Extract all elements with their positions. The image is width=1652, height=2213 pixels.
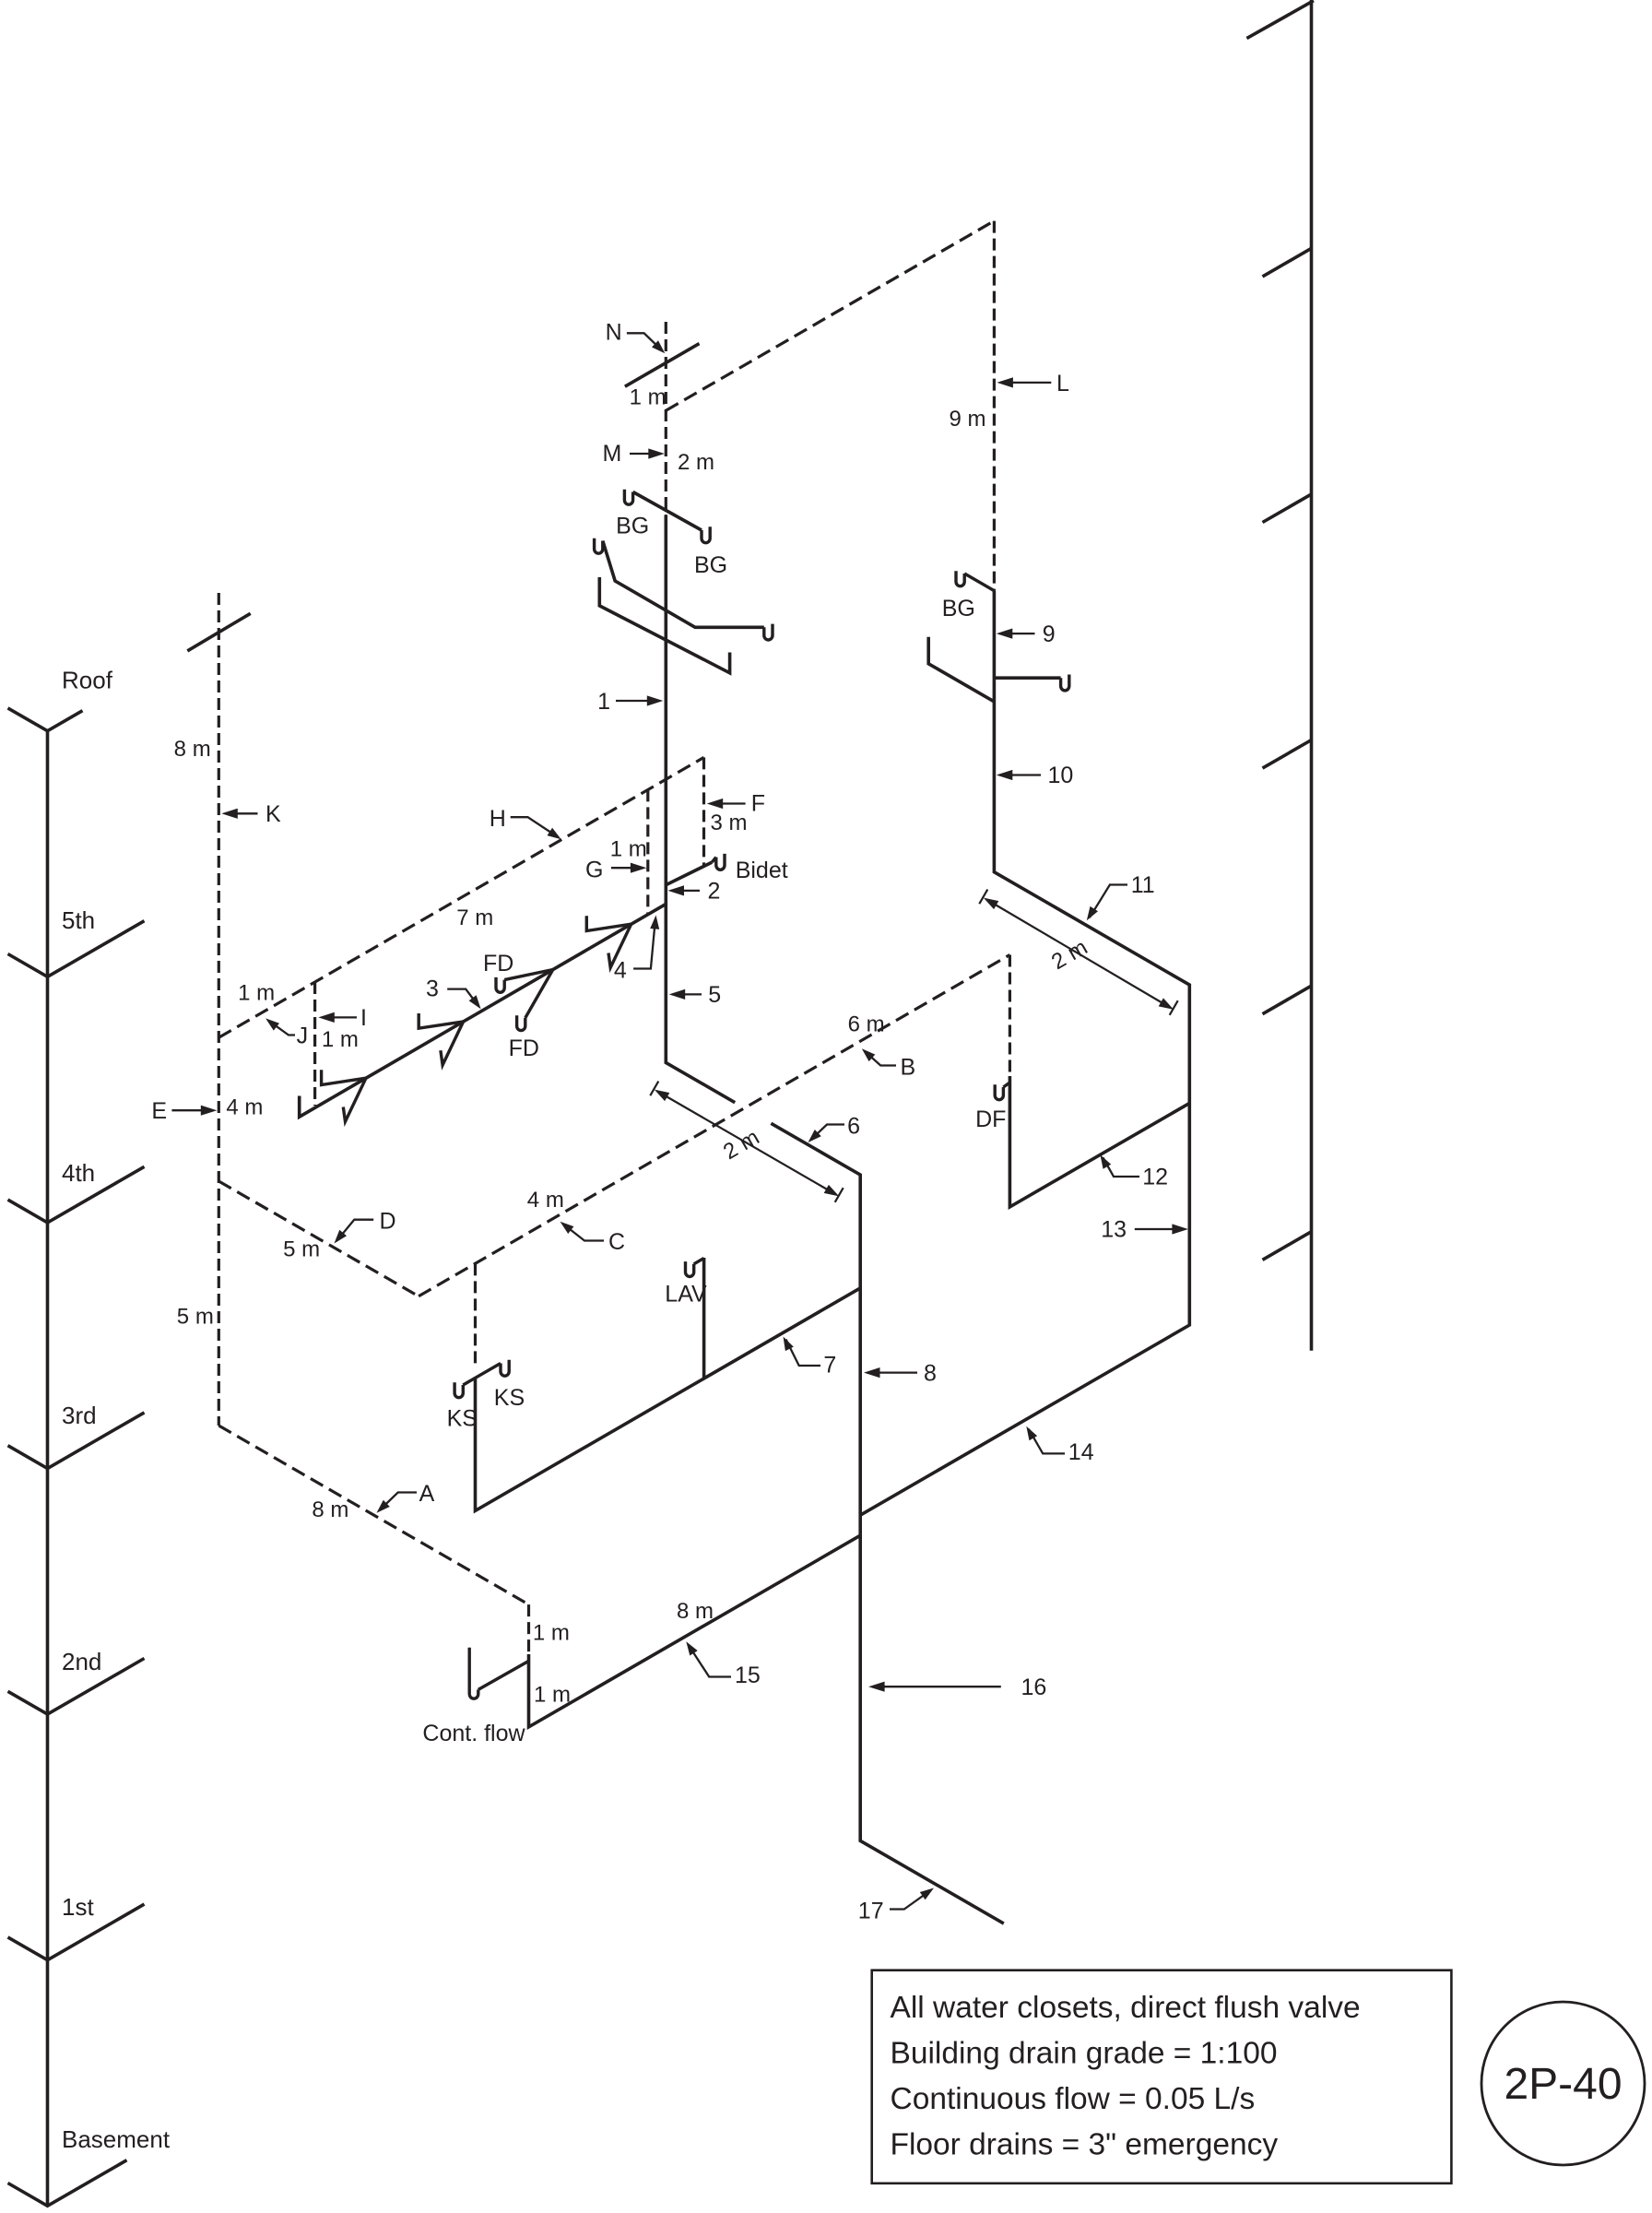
fixture trap lav-s2	[1061, 675, 1069, 691]
svg-text:7 m: 7 m	[456, 905, 493, 930]
WC W3 check	[608, 924, 631, 967]
floor tick and label 3rd	[8, 1413, 145, 1469]
vent A dashed diagonal	[218, 1426, 528, 1604]
svg-text:8 m: 8 m	[312, 1497, 348, 1522]
svg-text:E: E	[151, 1098, 167, 1124]
svg-text:12: 12	[1142, 1165, 1168, 1190]
floor scale vertical line	[46, 731, 50, 2207]
vent C-B dashed diagonal	[419, 955, 1009, 1296]
right stack vertical	[1310, 0, 1314, 1351]
pipe DF vertical	[1009, 1076, 1189, 1207]
right stack top tick	[1246, 1, 1314, 39]
vent diagonal stack1 to stack2 dashed	[666, 221, 994, 411]
WC W1 check	[343, 1078, 366, 1121]
right stack floor tick 1	[1263, 248, 1312, 277]
WC W1 bracket	[322, 1070, 366, 1084]
vent F dashed vertical	[702, 757, 705, 865]
stack 8 vertical	[771, 1123, 1003, 1923]
right stack floor tick 3	[1263, 740, 1312, 769]
svg-text:LAV: LAV	[665, 1282, 707, 1308]
WC W2 check	[441, 1022, 464, 1065]
fixture trap LAV	[694, 1259, 704, 1264]
label J leader	[269, 1021, 296, 1035]
svg-text:5 m: 5 m	[177, 1304, 214, 1329]
branch FD2 connector	[525, 970, 553, 1018]
arrow 5	[673, 993, 702, 995]
arrow I	[322, 1016, 357, 1018]
svg-text:D: D	[380, 1209, 396, 1235]
svg-text:1: 1	[597, 689, 610, 715]
svg-text:Continuous flow = 0.05 L/s: Continuous flow = 0.05 L/s	[891, 2082, 1256, 2116]
arrow 1	[616, 700, 659, 702]
svg-text:J: J	[297, 1024, 309, 1049]
fixture trap KS1	[454, 1382, 463, 1397]
vent DF dashed vertical	[1009, 955, 1011, 1073]
branch 3 main line	[300, 904, 667, 1117]
svg-text:1 m: 1 m	[610, 836, 647, 861]
fixture trap lav-s1	[764, 624, 773, 640]
arrow 13	[1135, 1228, 1174, 1230]
svg-text:B: B	[901, 1055, 916, 1081]
svg-text:8 m: 8 m	[677, 1599, 714, 1624]
right stack floor tick 4	[1263, 986, 1312, 1014]
svg-text:1st: 1st	[62, 1893, 94, 1921]
svg-text:1 m: 1 m	[322, 1027, 359, 1052]
dimension 2 m (jog 11) line	[987, 900, 1170, 1008]
svg-text:DF: DF	[975, 1106, 1006, 1132]
svg-text:BG: BG	[616, 513, 649, 538]
svg-text:15: 15	[735, 1663, 761, 1688]
svg-text:4 m: 4 m	[527, 1188, 564, 1213]
fixture cont flow trap	[469, 1648, 478, 1698]
svg-text:3rd: 3rd	[62, 1402, 97, 1429]
stack 1 solid	[666, 515, 735, 1103]
arrow E	[171, 1109, 204, 1111]
WC W2 bracket	[419, 1013, 463, 1028]
svg-text:Bidet: Bidet	[736, 858, 788, 883]
arrow M	[630, 453, 661, 455]
svg-text:6 m: 6 m	[848, 1012, 885, 1036]
arrow F	[711, 802, 746, 804]
drawing number circle	[1481, 2002, 1645, 2165]
vent D dashed diagonal	[218, 1181, 419, 1296]
svg-text:2: 2	[708, 879, 721, 905]
svg-text:6: 6	[847, 1114, 860, 1140]
svg-text:C: C	[608, 1229, 625, 1255]
pipe LAV vertical	[702, 1258, 706, 1379]
vent line H-J dashed diagonal	[218, 757, 703, 1037]
svg-text:3: 3	[426, 976, 439, 1002]
svg-text:FD: FD	[509, 1035, 539, 1061]
svg-text:I: I	[360, 1005, 367, 1031]
svg-text:N: N	[606, 320, 622, 346]
floor tick and label 1st	[8, 1904, 145, 1960]
stack 1 vent dashed	[665, 322, 667, 515]
fixture trap BG1 left	[624, 490, 632, 504]
svg-text:L: L	[1056, 371, 1069, 396]
fixture trap FD1	[496, 977, 504, 992]
arrow 16	[872, 1686, 1001, 1687]
arrow K	[225, 812, 258, 814]
floor tick and label 2nd	[8, 1659, 145, 1715]
svg-text:F: F	[751, 790, 765, 816]
svg-text:A: A	[419, 1481, 435, 1507]
arrow L	[1000, 382, 1051, 384]
svg-text:G: G	[585, 858, 603, 883]
pipe A drop solid	[529, 1535, 861, 1727]
svg-text:Roof: Roof	[62, 667, 113, 694]
svg-text:Building drain grade = 1:100: Building drain grade = 1:100	[891, 2037, 1278, 2071]
arrow G	[611, 867, 643, 869]
svg-text:8: 8	[924, 1360, 937, 1386]
fixture trap BG2	[595, 538, 603, 553]
WC W3 bracket	[586, 916, 631, 930]
right stack floor tick 5	[1263, 1232, 1312, 1260]
svg-text:5: 5	[708, 982, 721, 1008]
fixture trap FD2	[517, 1015, 525, 1030]
svg-text:H: H	[490, 806, 506, 832]
svg-text:4th: 4th	[62, 1159, 95, 1187]
vent I dashed vertical	[313, 982, 316, 1106]
vent stack K-E dashed	[218, 593, 220, 1426]
svg-text:17: 17	[858, 1899, 884, 1924]
floor tick and label 5th	[8, 921, 145, 977]
arrow 8	[867, 1371, 917, 1373]
svg-text:BG: BG	[942, 596, 975, 621]
svg-text:10: 10	[1048, 763, 1074, 788]
fixture trap bidet	[712, 858, 716, 863]
svg-text:9 m: 9 m	[949, 407, 985, 432]
svg-text:4: 4	[614, 957, 627, 983]
branch BG2 lower	[599, 577, 729, 673]
svg-text:8 m: 8 m	[174, 737, 211, 762]
svg-text:3 m: 3 m	[711, 811, 748, 835]
arrow 9	[999, 633, 1035, 634]
svg-text:5th: 5th	[62, 906, 95, 934]
arrow 10	[999, 774, 1041, 775]
svg-text:13: 13	[1101, 1217, 1127, 1243]
svg-text:16: 16	[1021, 1675, 1047, 1700]
fixture trap BG3	[956, 571, 964, 586]
svg-text:Floor drains = 3" emergency: Floor drains = 3" emergency	[891, 2128, 1279, 2162]
arrow 2	[671, 890, 700, 892]
svg-text:Cont. flow: Cont. flow	[422, 1721, 525, 1746]
stack 2 vent dashed	[993, 221, 996, 591]
fixture trap DF	[1003, 1083, 1009, 1087]
svg-text:14: 14	[1068, 1439, 1094, 1465]
branch KS line	[463, 1364, 501, 1386]
vent G dashed vertical	[646, 789, 649, 914]
svg-text:1 m: 1 m	[534, 1683, 571, 1708]
branch BG3 line	[964, 574, 994, 591]
svg-text:KS: KS	[447, 1406, 478, 1432]
svg-text:9: 9	[1043, 621, 1056, 647]
pipe KS drop	[476, 1288, 861, 1511]
svg-text:M: M	[602, 441, 621, 467]
dimension 2 m (jog 6) line	[658, 1092, 835, 1194]
vent KS dashed vertical	[474, 1263, 477, 1366]
svg-text:2nd: 2nd	[62, 1648, 101, 1675]
vent K break symbol	[187, 613, 250, 651]
svg-text:4 m: 4 m	[226, 1095, 263, 1120]
svg-text:BG: BG	[694, 552, 727, 578]
svg-text:1 m: 1 m	[533, 1621, 570, 1646]
floor tick and label Roof	[8, 708, 83, 731]
stack 2 solid	[860, 591, 1189, 1516]
branch FD1 connector	[504, 970, 553, 980]
note box	[872, 1970, 1452, 2183]
vent A vertical dashed	[527, 1604, 530, 1654]
branch cont flow connector	[478, 1661, 529, 1689]
fixture trap KS2	[501, 1360, 509, 1376]
right stack floor tick 2	[1263, 494, 1312, 523]
svg-text:5 m: 5 m	[283, 1237, 320, 1262]
svg-text:K: K	[265, 801, 281, 827]
branch BG2 upper	[603, 541, 764, 628]
svg-text:11: 11	[1131, 872, 1155, 898]
svg-text:1 m: 1 m	[238, 980, 275, 1005]
svg-text:KS: KS	[494, 1385, 525, 1411]
branch wc stack2	[928, 637, 994, 702]
svg-text:All water closets, direct flus: All water closets, direct flush valve	[891, 1991, 1361, 2025]
svg-text:FD: FD	[483, 951, 513, 976]
stack 1 vent terminal break	[625, 344, 700, 387]
branch bidet	[666, 862, 712, 885]
floor tick and label Basement	[8, 2160, 127, 2207]
svg-text:2P-40: 2P-40	[1504, 2060, 1622, 2109]
branch lav stack2 horizontal	[994, 676, 1060, 680]
floor tick and label 4th	[8, 1166, 145, 1223]
svg-text:Basement: Basement	[62, 2125, 171, 2153]
branch BG1 line	[633, 492, 702, 531]
svg-text:2 m: 2 m	[678, 450, 714, 475]
svg-text:1 m: 1 m	[630, 385, 667, 410]
svg-text:7: 7	[823, 1353, 836, 1379]
fixture trap BG1 right	[702, 527, 710, 542]
svg-text:2 m: 2 m	[1047, 935, 1091, 975]
